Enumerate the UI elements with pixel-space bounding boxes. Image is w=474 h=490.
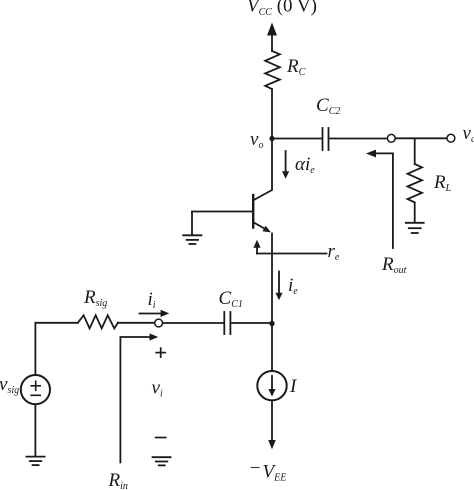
svg-text:−: − — [249, 458, 262, 479]
svg-text:vsig: vsig — [0, 374, 19, 396]
svg-text:vc: vc — [463, 123, 474, 145]
svg-text:Rin: Rin — [108, 470, 128, 490]
svg-text:Rsig: Rsig — [83, 287, 107, 309]
svg-text:RL: RL — [433, 172, 452, 194]
svg-text:VEE: VEE — [263, 462, 287, 484]
svg-text:CC1: CC1 — [219, 288, 243, 310]
svg-text:re: re — [328, 241, 340, 263]
svg-text:Rout: Rout — [381, 254, 407, 276]
svg-text:VCC (0 V): VCC (0 V) — [247, 0, 317, 18]
svg-text:vi: vi — [152, 378, 163, 400]
svg-text:vo: vo — [250, 129, 263, 151]
svg-text:I: I — [289, 376, 298, 397]
svg-text:αie: αie — [295, 154, 315, 176]
svg-text:ie: ie — [288, 275, 298, 297]
svg-text:ii: ii — [148, 289, 156, 311]
svg-text:RC: RC — [286, 56, 306, 78]
svg-text:CC2: CC2 — [316, 95, 340, 117]
